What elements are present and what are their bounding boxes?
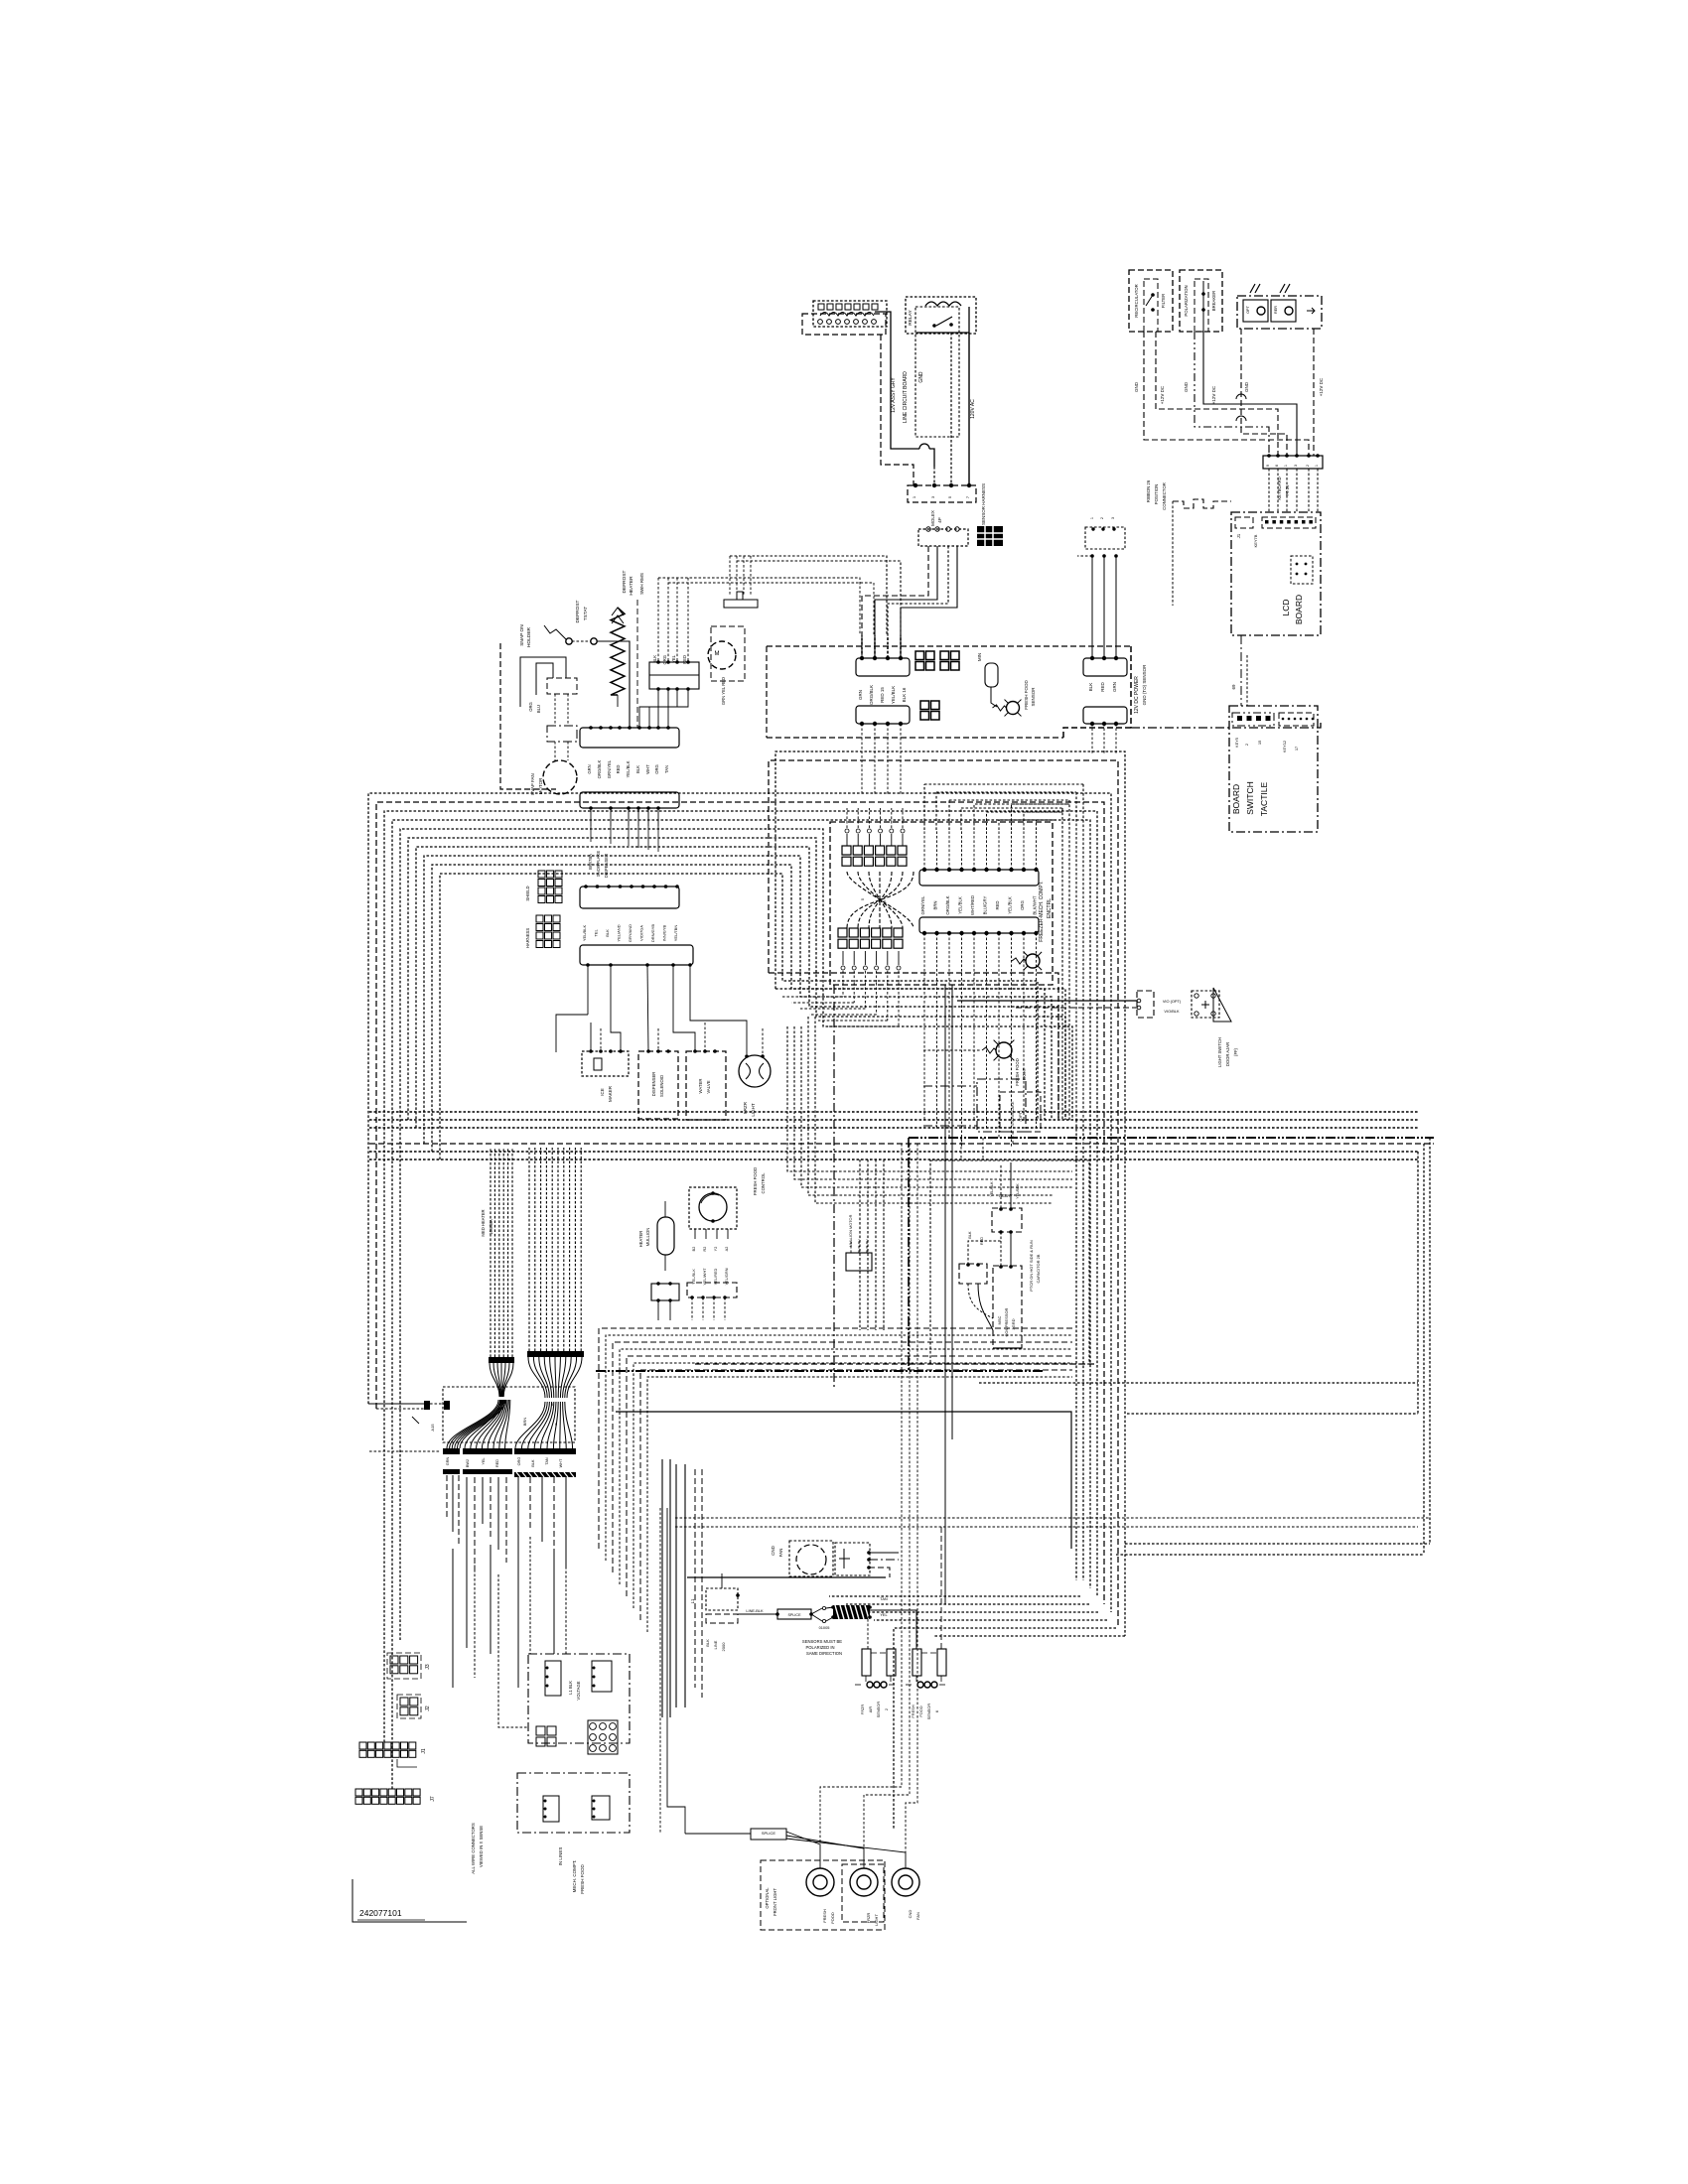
svg-text:BLU: BLU: [536, 705, 541, 713]
svg-text:12V ASSY GRY: 12V ASSY GRY: [891, 377, 897, 413]
svg-text:LINE: LINE: [713, 1640, 718, 1649]
svg-text:SPLICE: SPLICE: [787, 1613, 801, 1617]
svg-text:FREEZER-MECH. COMPT.: FREEZER-MECH. COMPT.: [1039, 881, 1045, 941]
svg-text:BLK: BLK: [605, 929, 610, 937]
svg-text:DEFROST: DEFROST: [622, 570, 628, 593]
svg-text:ORG: ORG: [654, 764, 659, 774]
svg-text:POSITION: POSITION: [1154, 484, 1159, 505]
svg-text:CAPACITOR 2B: CAPACITOR 2B: [1036, 1254, 1041, 1283]
svg-text:R2: R2: [703, 1247, 707, 1252]
svg-text:TAN: TAN: [880, 1596, 888, 1601]
svg-text:B2: B2: [692, 1247, 696, 1252]
svg-text:CND: CND: [908, 1910, 913, 1919]
svg-text:SNOWFLAKE: SNOWFLAKE: [596, 851, 601, 877]
svg-text:SNAP ON: SNAP ON: [519, 624, 525, 646]
svg-text:MOLEX: MOLEX: [930, 510, 935, 526]
svg-text:GND: GND: [1184, 381, 1189, 392]
svg-text:A2: A2: [725, 1247, 729, 1252]
svg-text:ORG/BLK: ORG/BLK: [945, 895, 950, 914]
svg-text:WHT: WHT: [559, 1458, 563, 1467]
svg-text:BRN: BRN: [522, 1418, 527, 1427]
svg-text:FRZR: FRZR: [866, 1913, 871, 1924]
svg-text:ORG: ORG: [1020, 899, 1025, 909]
svg-text:GRN: GRN: [858, 690, 863, 700]
svg-text:6: 6: [1275, 465, 1279, 467]
svg-text:J1: J1: [421, 1748, 427, 1754]
svg-text:3: 3: [1294, 465, 1298, 467]
svg-text:RELAY: RELAY: [908, 310, 914, 326]
svg-text:POLARIZED IN: POLARIZED IN: [805, 1645, 834, 1650]
svg-text:242077101: 242077101: [359, 1908, 402, 1918]
svg-text:FAN: FAN: [778, 1549, 783, 1558]
svg-text:BW2: BW2: [466, 1459, 470, 1467]
svg-text:J3: J3: [425, 1664, 431, 1670]
svg-text:FOOD: FOOD: [830, 1912, 835, 1924]
svg-text:M: M: [715, 651, 720, 657]
svg-text:RED: RED: [495, 1459, 499, 1467]
svg-text:1: 1: [1284, 465, 1288, 467]
svg-text:VALVE: VALVE: [706, 1080, 711, 1093]
svg-text:J2: J2: [425, 1706, 431, 1711]
svg-text:FILTER: FILTER: [1161, 294, 1166, 308]
svg-text:BREAKER: BREAKER: [1211, 291, 1216, 312]
svg-text:GRN: GRN: [1112, 682, 1117, 692]
svg-text:GRN: GRN: [446, 1457, 450, 1466]
svg-text:TAN: TAN: [545, 1457, 549, 1465]
svg-text:ORG: ORG: [517, 1457, 521, 1466]
svg-text:FRONT LIGHT: FRONT LIGHT: [773, 1888, 777, 1916]
svg-text:J7: J7: [430, 1796, 436, 1802]
svg-text:BLK/WHT: BLK/WHT: [1033, 895, 1038, 914]
svg-text:01005: 01005: [819, 1625, 830, 1630]
svg-text:RED: RED: [616, 765, 621, 774]
svg-text:GRY/AND: GRY/AND: [628, 924, 633, 942]
svg-text:YEL/BLK: YEL/BLK: [1016, 1183, 1020, 1199]
svg-text:ENCTRL: ENCTRL: [1047, 898, 1053, 918]
svg-text:3GRD: 3GRD: [1011, 1318, 1016, 1329]
svg-text:GRN/YEL: GRN/YEL: [607, 759, 612, 778]
svg-text:YEL/BLK: YEL/BLK: [626, 760, 631, 777]
svg-text:ALL WIRE CONNECTORS: ALL WIRE CONNECTORS: [471, 1823, 476, 1874]
svg-text:MOTOR: MOTOR: [538, 777, 543, 794]
svg-text:ORG/BLK: ORG/BLK: [869, 685, 874, 705]
svg-text:VIO/7GA: VIO/7GA: [639, 925, 644, 941]
svg-text:ORG/BLK: ORG/BLK: [597, 759, 602, 778]
svg-text:10W/BA: 10W/BA: [489, 1219, 493, 1235]
svg-text:ORG: ORG: [528, 702, 533, 712]
svg-text:MAKER: MAKER: [608, 1085, 613, 1102]
svg-text:(FF): (FF): [1233, 1047, 1238, 1056]
svg-text:Y2: Y2: [714, 1247, 718, 1252]
svg-text:HEATER: HEATER: [629, 576, 634, 596]
svg-text:3: 3: [1111, 517, 1115, 519]
svg-text:IN LINES: IN LINES: [558, 1847, 563, 1866]
svg-text:1: 1: [1315, 465, 1319, 467]
svg-text:15: 15: [1257, 741, 1262, 745]
svg-text:DISPENSER: DISPENSER: [604, 854, 609, 878]
svg-text:VIEWED IN X SENSE: VIEWED IN X SENSE: [479, 1826, 484, 1867]
svg-text:+12V DC: +12V DC: [1319, 377, 1324, 396]
svg-text:VIO (OPT): VIO (OPT): [1163, 999, 1182, 1004]
svg-text:P6 26: P6 26: [1285, 484, 1290, 496]
svg-text:BOARD: BOARD: [1231, 784, 1241, 814]
svg-text:GND (TO) SENSOR: GND (TO) SENSOR: [1142, 664, 1147, 705]
svg-text:TSTAT: TSTAT: [583, 607, 589, 621]
svg-text:OPT: OPT: [1246, 305, 1250, 313]
svg-text:SNOWFLAKE: SNOWFLAKE: [1010, 1101, 1015, 1126]
svg-text:SENSOR HARNESS: SENSOR HARNESS: [981, 483, 986, 525]
svg-text:KEY12: KEY12: [1282, 741, 1287, 752]
svg-text:GND: GND: [1134, 381, 1139, 392]
svg-text:TACTILE: TACTILE: [1259, 782, 1269, 817]
svg-text:2: 2: [1244, 744, 1249, 746]
svg-text:RED: RED: [980, 1237, 984, 1245]
svg-text:FOOD: FOOD: [918, 1706, 923, 1716]
svg-text:SENSORS MUST BE: SENSORS MUST BE: [802, 1639, 842, 1644]
svg-text:BLK: BLK: [635, 765, 640, 773]
svg-text:FRESH FOOD: FRESH FOOD: [753, 1167, 758, 1195]
svg-text:SPLICE: SPLICE: [762, 1831, 776, 1836]
svg-text:FRESH: FRESH: [822, 1909, 827, 1923]
svg-text:SENSOR: SENSOR: [926, 1704, 931, 1720]
svg-text:YEL/BLK: YEL/BLK: [891, 686, 896, 704]
svg-text:MECH. COMPT.: MECH. COMPT.: [572, 1860, 577, 1893]
svg-text:DISPENSER: DISPENSER: [651, 1072, 656, 1097]
svg-text:FRESH FOOD: FRESH FOOD: [580, 1864, 585, 1894]
svg-text:SENSOR: SENSOR: [876, 1702, 881, 1718]
svg-text:YEL/BLK: YEL/BLK: [958, 896, 963, 914]
svg-text:+12V DC: +12V DC: [1160, 385, 1165, 404]
svg-text:BLK: BLK: [968, 1231, 972, 1239]
svg-text:COMPRESSOR: COMPRESSOR: [1004, 1307, 1009, 1336]
svg-text:TAN: TAN: [664, 765, 669, 773]
svg-text:FRZR: FRZR: [743, 1101, 748, 1114]
svg-text:6: 6: [934, 1710, 939, 1712]
svg-text:ICE: ICE: [600, 1088, 605, 1096]
svg-text:RECIRCULATOR: RECIRCULATOR: [1134, 284, 1139, 318]
svg-text:BLU/GRY: BLU/GRY: [983, 895, 988, 914]
svg-text:POLARIZATION: POLARIZATION: [1184, 285, 1189, 316]
svg-text:LCD: LCD: [1281, 599, 1291, 615]
svg-text:WHT/RED: WHT/RED: [970, 895, 975, 915]
svg-text:SWITCH: SWITCH: [1245, 781, 1255, 815]
svg-text:VIO/BLK: VIO/BLK: [1164, 1009, 1180, 1014]
svg-text:69: 69: [1231, 684, 1236, 690]
svg-text:2000: 2000: [721, 1642, 726, 1652]
svg-text:L1 BLK: L1 BLK: [568, 1681, 573, 1695]
svg-text:WHT: WHT: [645, 764, 650, 774]
svg-text:(OPT): (OPT): [1018, 1110, 1023, 1122]
svg-text:L1: L1: [690, 1598, 695, 1603]
svg-text:WATER: WATER: [698, 1078, 703, 1093]
svg-text:SOLENOID: SOLENOID: [659, 1075, 664, 1097]
svg-text:DOOR AJAR: DOOR AJAR: [1225, 1042, 1230, 1066]
svg-text:EVAP FAN: EVAP FAN: [530, 773, 535, 795]
svg-text:2: 2: [884, 1708, 889, 1710]
svg-text:LIGHT: LIGHT: [874, 1914, 879, 1926]
svg-text:RIBBON 26: RIBBON 26: [1146, 479, 1151, 502]
svg-text:KEY5: KEY5: [1234, 738, 1239, 748]
svg-text:MED HEATER: MED HEATER: [481, 1209, 486, 1236]
svg-text:17: 17: [1294, 747, 1299, 751]
svg-text:YEL/AND: YEL/AND: [617, 924, 622, 941]
svg-text:CONTROL: CONTROL: [761, 1172, 766, 1194]
svg-text:BLK: BLK: [705, 1639, 710, 1647]
svg-text:RED: RED: [1100, 682, 1105, 692]
svg-text:BLK: BLK: [1088, 683, 1093, 692]
svg-text:FAN: FAN: [915, 1912, 920, 1920]
svg-text:MULLION MOTOR: MULLION MOTOR: [848, 1214, 853, 1247]
svg-text:YEL/BLK: YEL/BLK: [990, 1181, 994, 1197]
svg-text:YEL/BLK: YEL/BLK: [1008, 896, 1013, 914]
svg-text:4P: 4P: [937, 517, 942, 523]
svg-text:SAME DIRECTION: SAME DIRECTION: [806, 1651, 842, 1656]
svg-text:GRN/YEL: GRN/YEL: [920, 895, 925, 914]
svg-text:FRZR: FRZR: [860, 1705, 865, 1715]
svg-text:2: 2: [1100, 517, 1104, 519]
svg-text:BLK 16: BLK 16: [902, 687, 907, 702]
svg-text:CND: CND: [771, 1545, 775, 1555]
svg-text:SHIELD: SHIELD: [525, 886, 530, 900]
svg-text:BLK: BLK: [531, 1459, 535, 1467]
svg-text:MIN: MIN: [977, 653, 982, 661]
svg-text:YEL/7BN: YEL/7BN: [673, 925, 678, 942]
svg-text:TEL: TEL: [594, 929, 599, 937]
svg-text:120V AC: 120V AC: [970, 399, 976, 419]
svg-text:KEY7B: KEY7B: [1253, 534, 1258, 547]
svg-text:AIR: AIR: [868, 1706, 873, 1713]
svg-text:SENSOR: SENSOR: [1031, 687, 1036, 707]
svg-text:LINE CIRCUIT BOARD: LINE CIRCUIT BOARD: [903, 371, 909, 423]
svg-text:1: 1: [1090, 517, 1094, 519]
svg-text:HARNESS: HARNESS: [525, 928, 530, 948]
svg-text:A15: A15: [430, 1424, 435, 1432]
svg-text:+12V DC: +12V DC: [1211, 385, 1216, 404]
svg-text:RED 15: RED 15: [880, 687, 885, 703]
svg-text:MULLION: MULLION: [645, 1228, 650, 1247]
svg-text:VOLTAGE: VOLTAGE: [576, 1681, 581, 1700]
svg-text:DRN/GYB: DRN/GYB: [650, 924, 655, 943]
svg-text:HOLDER: HOLDER: [526, 626, 532, 647]
svg-text:YEL: YEL: [482, 1457, 486, 1464]
svg-text:DEFROST: DEFROST: [575, 600, 581, 622]
svg-text:OPTIONAL: OPTIONAL: [765, 1887, 770, 1909]
svg-text:BW/7BA: BW/7BA: [588, 854, 593, 870]
svg-text:GND: GND: [1244, 381, 1249, 392]
svg-text:FRESH: FRESH: [911, 1705, 915, 1717]
svg-text:LIGHT SWITCH: LIGHT SWITCH: [1217, 1037, 1222, 1067]
svg-text:9: 9: [1266, 465, 1270, 467]
svg-text:ORG: ORG: [662, 655, 667, 665]
svg-text:PTCR ON HOT SIDE & RUN: PTCR ON HOT SIDE & RUN: [1029, 1240, 1034, 1292]
svg-text:J1: J1: [1236, 533, 1241, 538]
svg-text:RED: RED: [995, 900, 1000, 909]
svg-text:HEATER: HEATER: [638, 1231, 643, 1248]
svg-text:FRESH FOOD: FRESH FOOD: [1024, 680, 1029, 710]
svg-text:GRN YEL RED: GRN YEL RED: [721, 677, 726, 705]
svg-text:BOARD: BOARD: [1294, 595, 1304, 624]
svg-text:LIGHT: LIGHT: [751, 1103, 756, 1117]
svg-text:2: 2: [1306, 465, 1310, 467]
svg-text:CONNECTOR: CONNECTOR: [1162, 482, 1167, 510]
svg-text:FRESH FOOD: FRESH FOOD: [1015, 1058, 1020, 1085]
svg-text:GND: GND: [918, 371, 924, 383]
svg-text:YEL/BLK: YEL/BLK: [582, 925, 587, 942]
svg-text:GRN: GRN: [587, 764, 592, 773]
svg-text:RER: RER: [1274, 306, 1278, 314]
svg-text:SWH RMS: SWH RMS: [639, 573, 644, 595]
svg-text:INN/GYB: INN/GYB: [662, 924, 667, 941]
svg-text:MSC: MSC: [997, 1315, 1002, 1324]
svg-text:BRN: BRN: [933, 900, 938, 909]
svg-text:LINE-BLK: LINE-BLK: [746, 1608, 764, 1613]
svg-text:LIGHT: LIGHT: [1022, 1067, 1027, 1080]
svg-text:12V DC POWER: 12V DC POWER: [1134, 676, 1140, 714]
svg-text:YEL: YEL: [880, 1612, 888, 1617]
